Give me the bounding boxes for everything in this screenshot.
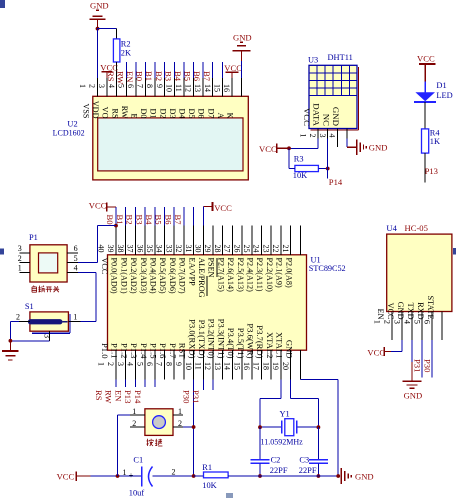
svg-text:D1: D1	[149, 108, 158, 118]
svg-text:K: K	[226, 113, 235, 119]
wire S1 pin2 down	[9, 322, 11, 341]
net labels RS RW EN B0-B7 (LCD)	[106, 71, 212, 85]
svg-text:9: 9	[174, 362, 183, 366]
svg-text:P0.5(AD5): P0.5(AD5)	[158, 258, 167, 294]
svg-text:PSEN: PSEN	[207, 258, 216, 278]
svg-text:DATA: DATA	[312, 103, 322, 126]
svg-text:13: 13	[193, 84, 202, 92]
svg-text:1: 1	[78, 84, 87, 88]
svg-text:3: 3	[18, 244, 22, 253]
svg-text:13: 13	[213, 362, 222, 370]
power symbol VCC (reset rail)	[57, 472, 91, 482]
svg-text:17: 17	[252, 362, 261, 370]
svg-text:40: 40	[97, 245, 106, 253]
svg-text:19: 19	[271, 362, 280, 370]
wire R3 leads	[289, 168, 328, 170]
svg-text:2: 2	[132, 419, 136, 428]
svg-text:A: A	[216, 113, 225, 119]
resistor R3	[295, 165, 319, 171]
svg-text:P0.3(AD3): P0.3(AD3)	[139, 258, 148, 294]
wire C1 to RST node	[153, 475, 194, 477]
svg-text:D3: D3	[168, 108, 177, 118]
svg-text:1: 1	[18, 264, 22, 273]
svg-text:GND: GND	[233, 32, 252, 42]
MCU bottom pin numbers 1-20	[97, 362, 290, 370]
HC-05 pin numbers 1-6	[373, 320, 433, 325]
svg-text:B3: B3	[134, 215, 144, 225]
wire VCC to MCU pin31	[202, 207, 204, 226]
svg-text:LCD1602: LCD1602	[53, 129, 85, 138]
svg-text:P14: P14	[329, 177, 343, 187]
wire VCC rail to C1	[91, 475, 142, 477]
DHT11 pin names	[302, 103, 341, 126]
wire R1 left lead	[194, 475, 204, 477]
svg-text:VCC: VCC	[89, 201, 107, 211]
svg-text:2: 2	[88, 84, 97, 88]
node junction R3/DATA	[326, 167, 330, 171]
svg-text:GND: GND	[355, 471, 374, 481]
designator U2	[67, 120, 77, 129]
svg-text:EN: EN	[125, 71, 135, 83]
svg-text:B2: B2	[125, 215, 135, 225]
svg-text:4: 4	[74, 264, 78, 273]
svg-text:B4: B4	[144, 215, 154, 226]
wire VCC branch to switch P1	[97, 226, 116, 263]
power symbol VCC (HC-05 pin2)	[367, 347, 391, 358]
screen artifact left-edge	[0, 249, 4, 255]
svg-text:EN: EN	[113, 390, 123, 402]
wire LCD pin15 stub-extra	[231, 78, 233, 96]
wire MCU pin18 XTAL2 to crystal left	[260, 379, 281, 427]
screen artifact top-left	[0, 0, 5, 8]
MCU top pin numbers 40-21	[97, 245, 290, 253]
svg-text:P0.2(AD2): P0.2(AD2)	[129, 258, 138, 294]
wire C2 to ground rail	[259, 463, 261, 476]
svg-text:7: 7	[155, 362, 164, 366]
svg-text:LED: LED	[436, 91, 452, 100]
net labels B0-B7 (MCU P0 bus)	[105, 215, 183, 226]
wire VCC to DHT11 pin1	[289, 138, 318, 148]
wire pushbutton to RST	[183, 426, 193, 428]
power symbol GND (S1, earth)	[2, 341, 18, 360]
svg-text:P1.0: P1.0	[100, 343, 110, 359]
svg-text:P1.5: P1.5	[149, 343, 159, 359]
svg-text:RS: RS	[110, 108, 119, 118]
wire P1 pin4 to S1 pin1	[78, 272, 96, 321]
svg-text:B0: B0	[105, 215, 115, 225]
svg-text:30: 30	[194, 245, 203, 253]
DHT11 pin numbers 1-4	[299, 134, 337, 138]
svg-text:1: 1	[299, 134, 308, 138]
svg-text:P1.6: P1.6	[158, 343, 168, 359]
svg-text:P3.7(RD): P3.7(RD)	[255, 325, 265, 358]
svg-text:B6: B6	[192, 71, 202, 82]
svg-text:1: 1	[132, 407, 136, 416]
P1 pin numbers	[18, 244, 78, 272]
label P1 name (self-lock switch)	[32, 286, 59, 293]
svg-text:D4: D4	[178, 108, 187, 118]
svg-text:R1: R1	[202, 463, 212, 472]
power symbol VCC (DHT11 pin1)	[259, 144, 289, 154]
label R1 value 10K	[202, 481, 216, 490]
switch S1 body	[30, 312, 69, 331]
designator P1	[29, 233, 38, 242]
svg-text:1K: 1K	[430, 137, 440, 146]
svg-text:1: 1	[73, 312, 77, 321]
svg-text:21: 21	[281, 245, 290, 253]
net labels RS RW EN P13 P14 (MCU)	[94, 390, 143, 404]
svg-text:B5: B5	[154, 215, 164, 225]
wire HC-05 pin3 down	[411, 340, 413, 362]
svg-text:D1: D1	[436, 81, 446, 90]
svg-text:DHT11: DHT11	[328, 53, 353, 62]
wire HC-05 pin2 to VCC	[391, 340, 402, 352]
svg-text:P0.0(AD0): P0.0(AD0)	[110, 258, 119, 294]
label LED	[436, 91, 452, 100]
svg-text:11: 11	[194, 362, 203, 370]
svg-text:B0: B0	[135, 71, 145, 81]
svg-text:U4: U4	[386, 223, 397, 233]
switch S1 actuator bar	[28, 319, 67, 324]
svg-text:VDD: VDD	[91, 101, 100, 119]
LCD screen area	[98, 118, 243, 171]
wire LED cathode to R4	[424, 102, 426, 129]
power symbol GND (bottom rail, rotated)	[341, 468, 373, 484]
label pushbutton name	[147, 439, 163, 446]
svg-text:D2: D2	[158, 108, 167, 118]
svg-text:P0.4(AD4): P0.4(AD4)	[149, 258, 158, 294]
HC-05 pin stubs	[392, 312, 442, 341]
svg-text:GND: GND	[284, 340, 294, 359]
wires MCU pins 39-32 up (P0 bus)	[126, 207, 194, 226]
designator S1	[25, 302, 34, 311]
power symbol VCC (LED branch)	[417, 54, 436, 82]
designator value LCD1602	[53, 129, 85, 138]
svg-text:STC89C52: STC89C52	[309, 264, 346, 273]
label Y1	[280, 409, 290, 418]
svg-text:P1.2: P1.2	[119, 343, 129, 359]
svg-text:12: 12	[184, 84, 193, 92]
svg-text:29: 29	[203, 245, 212, 253]
svg-text:RS: RS	[106, 71, 116, 82]
resistor R2	[113, 39, 120, 62]
svg-text:RXD: RXD	[416, 302, 425, 319]
svg-text:XTAL2: XTAL2	[265, 332, 275, 359]
svg-text:37: 37	[126, 245, 135, 253]
svg-text:VCC: VCC	[100, 258, 109, 275]
svg-text:P2.1(A9): P2.1(A9)	[275, 258, 284, 289]
svg-text:4: 4	[403, 320, 413, 325]
S1 right pin stub	[68, 321, 80, 323]
svg-text:P31: P31	[191, 390, 201, 403]
svg-text:2: 2	[178, 419, 182, 428]
svg-text:38: 38	[116, 245, 125, 253]
wire VCC to MCU pin40	[115, 207, 117, 226]
MCU top pin names	[100, 258, 293, 298]
screen artifact bottom	[226, 493, 233, 498]
svg-text:U2: U2	[67, 120, 77, 129]
svg-text:B1: B1	[144, 71, 154, 81]
node junction VCC/R3	[287, 146, 291, 150]
svg-text:P13: P13	[425, 166, 438, 176]
svg-text:C1: C1	[133, 456, 143, 465]
svg-text:1: 1	[178, 407, 182, 416]
node junction rail/GND	[336, 474, 340, 478]
pushbutton pin numbers	[132, 407, 182, 428]
svg-text:VCC: VCC	[302, 108, 312, 126]
svg-text:6: 6	[126, 84, 135, 88]
svg-text:2K: 2K	[121, 48, 131, 57]
wire GND junction to R2 top	[98, 28, 117, 30]
P1 left pin stubs	[19, 253, 30, 272]
svg-text:16: 16	[222, 84, 231, 92]
wire DHT11 DATA down (net P14)	[327, 138, 329, 178]
svg-text:P2.5(A13): P2.5(A13)	[236, 258, 245, 293]
pushbutton right pin stubs	[173, 415, 183, 427]
wire R2 top lead	[116, 29, 118, 39]
svg-text:4: 4	[107, 84, 116, 88]
svg-text:31: 31	[184, 245, 193, 253]
svg-text:VCC: VCC	[386, 303, 395, 320]
wire P1 pin5 to VCC branch	[78, 262, 98, 264]
connector P1 inner square	[39, 253, 58, 273]
DHT11 pin stubs	[318, 129, 347, 148]
svg-text:P2.2(A10): P2.2(A10)	[265, 258, 274, 293]
svg-text:3: 3	[318, 134, 327, 138]
svg-text:34: 34	[155, 245, 164, 253]
node junction button branch/rail	[116, 474, 120, 478]
svg-text:R3: R3	[294, 155, 304, 164]
wire MCU pin19 XTAL1 to crystal right	[291, 379, 319, 427]
sensor U3 DHT11 body with grid	[309, 65, 357, 128]
svg-text:P2.3(A11): P2.3(A11)	[255, 258, 264, 292]
net labels P30 P31 (MCU)	[181, 390, 201, 403]
designator value STC89C52	[309, 264, 346, 273]
label R4	[430, 129, 441, 138]
wire DHT11 pin4 to GND	[347, 138, 357, 147]
svg-text:4: 4	[126, 362, 135, 366]
svg-text:Y1: Y1	[280, 409, 290, 418]
pushbutton left pin stubs	[130, 415, 145, 427]
DHT11 body shadow	[311, 67, 359, 130]
svg-text:VCC: VCC	[417, 54, 435, 64]
svg-text:23: 23	[261, 245, 270, 253]
svg-text:22PF: 22PF	[299, 466, 317, 475]
svg-text:GND: GND	[396, 302, 405, 320]
svg-text:10K: 10K	[293, 171, 307, 180]
svg-text:P3.3(INT1): P3.3(INT1)	[216, 319, 226, 359]
node junction pin40/switch branch	[114, 224, 118, 228]
svg-text:P30: P30	[423, 359, 433, 372]
svg-text:GND: GND	[369, 142, 388, 152]
svg-text:B3: B3	[163, 71, 173, 81]
S1 left pin stub	[10, 321, 30, 323]
svg-text:1: 1	[123, 468, 127, 477]
svg-text:P31: P31	[413, 359, 423, 372]
svg-text:NC: NC	[321, 114, 331, 126]
svg-text:3: 3	[43, 334, 52, 338]
svg-text:P3.2(INT0): P3.2(INT0)	[207, 319, 217, 359]
svg-text:B7: B7	[173, 215, 183, 226]
svg-text:P30: P30	[181, 390, 191, 403]
svg-text:P13: P13	[123, 390, 133, 403]
svg-text:RW: RW	[115, 71, 125, 85]
LCD pin names VSS..K	[82, 101, 235, 119]
label C1	[133, 456, 143, 465]
wire R1 right lead to ground rail	[228, 475, 338, 477]
svg-text:11.0592MHz: 11.0592MHz	[261, 437, 304, 446]
power symbol VCC (LCD pin15 A)	[224, 63, 242, 78]
designator value DHT11	[328, 53, 353, 62]
svg-text:6: 6	[145, 362, 154, 366]
wires HC-05 pins 4-5 down	[422, 340, 432, 378]
svg-text:33: 33	[164, 245, 173, 253]
svg-text:VCC: VCC	[259, 144, 277, 154]
svg-text:3: 3	[116, 362, 125, 366]
svg-text:14: 14	[203, 84, 212, 92]
MCU bottom pin names	[100, 319, 294, 360]
label C2 value 22PF	[270, 466, 288, 475]
svg-text:35: 35	[145, 245, 154, 253]
svg-text:P0.7(AD7): P0.7(AD7)	[178, 258, 187, 294]
svg-text:14: 14	[223, 362, 232, 370]
microcontroller U1 STC89C52 body	[108, 255, 307, 350]
svg-text:R2: R2	[121, 39, 131, 48]
svg-text:P3.6(WR): P3.6(WR)	[246, 323, 256, 358]
svg-text:B4: B4	[173, 71, 183, 82]
svg-text:9: 9	[155, 84, 164, 88]
svg-text:B5: B5	[183, 71, 193, 81]
svg-text:B2: B2	[154, 71, 164, 81]
svg-text:+: +	[129, 471, 134, 480]
svg-text:P2.4(A12): P2.4(A12)	[246, 258, 255, 293]
wires LCD pins 4-14 up	[126, 62, 222, 78]
designator U1	[311, 255, 321, 264]
capacitor C1 (polarized)	[142, 467, 153, 487]
svg-text:2: 2	[308, 134, 317, 138]
svg-text:P2.7(A15): P2.7(A15)	[216, 258, 225, 293]
svg-text:RW: RW	[104, 390, 114, 404]
power symbol GND (LCD pin16 K)	[232, 32, 251, 61]
wire crystal left to C2	[259, 427, 261, 459]
svg-text:VCC: VCC	[367, 348, 385, 358]
svg-text:5: 5	[135, 362, 144, 366]
svg-text:P0.6(AD6): P0.6(AD6)	[168, 258, 177, 294]
screen artifact right-edge	[453, 248, 456, 255]
capacitor C2	[251, 460, 270, 464]
svg-text:22PF: 22PF	[270, 466, 288, 475]
svg-text:GND: GND	[404, 390, 423, 400]
svg-text:10K: 10K	[202, 481, 216, 490]
node junction crystal right	[317, 425, 321, 429]
label C1 pin2	[172, 467, 176, 476]
svg-text:VO: VO	[101, 107, 110, 119]
label R3 value 10K	[293, 171, 307, 180]
designator U3	[308, 56, 318, 65]
label C1 value 10uf	[129, 489, 145, 498]
power symbol GND (top-left, net of LCD pin1/VSS)	[89, 1, 108, 29]
svg-text:1: 1	[373, 320, 383, 324]
power symbol VCC (MCU pin40)	[89, 201, 116, 212]
svg-text:R4: R4	[430, 129, 441, 138]
label R4 value 1K	[430, 137, 440, 146]
svg-text:P2.0(A8): P2.0(A8)	[284, 258, 293, 289]
svg-text:ALE/PROG: ALE/PROG	[197, 258, 206, 298]
power symbol VCC (LCD pin2 VDD)	[100, 62, 118, 96]
S1 pin3 number	[43, 334, 52, 338]
svg-text:10uf: 10uf	[129, 489, 145, 498]
svg-text:P3.4(T0): P3.4(T0)	[226, 328, 236, 359]
svg-text:2: 2	[18, 254, 22, 263]
capacitor C3	[309, 460, 328, 464]
svg-text:36: 36	[135, 245, 144, 253]
wire junction down to R3	[288, 148, 290, 168]
svg-text:XTAL1: XTAL1	[275, 332, 285, 359]
svg-text:2: 2	[16, 312, 20, 321]
svg-text:S1: S1	[25, 302, 34, 311]
svg-text:VSS: VSS	[82, 103, 91, 118]
wire button branch	[118, 415, 130, 476]
label R3	[294, 155, 304, 164]
svg-text:11: 11	[174, 84, 183, 92]
svg-text:3: 3	[97, 84, 106, 88]
svg-text:RST: RST	[178, 343, 188, 360]
wire R4 bottom (net P13)	[424, 153, 426, 182]
S1 pin2 number	[16, 312, 20, 321]
svg-text:GND: GND	[90, 1, 109, 11]
svg-text:26: 26	[232, 245, 241, 253]
wire R2 bottom lead to LCD pin3	[116, 62, 118, 96]
bluetooth module U4 HC-05 body	[387, 234, 452, 311]
svg-text:RW: RW	[120, 106, 129, 119]
resistor R1	[204, 472, 229, 478]
net label P14	[329, 177, 343, 187]
label C3	[299, 456, 309, 465]
svg-text:P1: P1	[29, 233, 38, 242]
svg-text:P3.0(RXD): P3.0(RXD)	[187, 319, 197, 359]
crystal Y1 symbol	[260, 419, 318, 436]
MCU bottom pin stubs (pins 1-20)	[116, 350, 300, 379]
label D1	[436, 81, 446, 90]
net label P13	[425, 166, 438, 176]
svg-text:D5: D5	[187, 108, 196, 118]
wires MCU pins 1-5 down	[116, 379, 155, 387]
svg-text:20: 20	[281, 362, 290, 370]
svg-text:P1.1: P1.1	[110, 343, 120, 359]
svg-text:RS: RS	[94, 390, 104, 401]
label C3 value 22PF	[299, 466, 317, 475]
connector P1 body	[30, 245, 67, 282]
power symbol VCC (MCU pin31 EA/VPP)	[203, 202, 232, 213]
node junction GND/R2/LCD-pin1	[96, 27, 100, 31]
svg-text:P1.3: P1.3	[129, 343, 139, 359]
power symbol GND (DHT11, rotated)	[357, 140, 388, 155]
node junction button/RST	[192, 425, 196, 429]
svg-text:TXD: TXD	[406, 303, 415, 320]
svg-text:D7: D7	[206, 108, 215, 118]
wire S1 pin3 to GND	[10, 340, 49, 342]
svg-text:8: 8	[164, 362, 173, 366]
power symbol GND (HC-05)	[403, 362, 423, 400]
svg-text:2: 2	[383, 320, 393, 324]
svg-text:25: 25	[242, 245, 251, 253]
svg-text:8: 8	[145, 84, 154, 88]
svg-text:2: 2	[106, 362, 115, 366]
svg-text:7: 7	[136, 84, 145, 88]
wire LCD pin16 to GND	[241, 61, 243, 78]
svg-text:27: 27	[223, 245, 232, 253]
designator value HC-05	[405, 223, 428, 233]
